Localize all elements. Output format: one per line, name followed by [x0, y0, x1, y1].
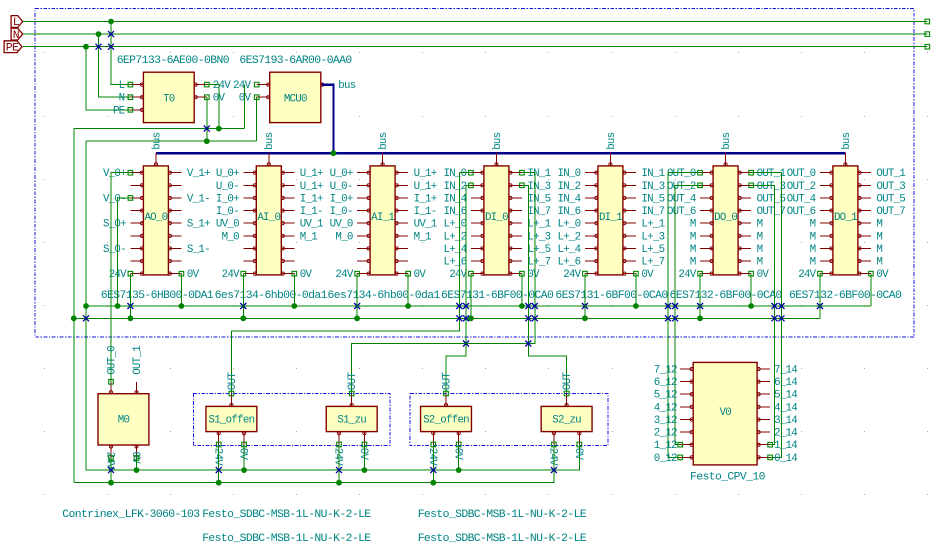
- T0 left pins L N PE: [113, 80, 144, 117]
- svg-text:UV_0: UV_0: [330, 219, 353, 231]
- S2_zu pin OUT: [562, 372, 574, 407]
- svg-text:M_0: M_0: [335, 231, 352, 243]
- wire AO_0 V_0+ to M0 OUT_0: [111, 173, 130, 382]
- svg-text:24V: 24V: [213, 80, 231, 92]
- svg-text:4_14: 4_14: [774, 402, 797, 414]
- svg-text:IN_3: IN_3: [641, 181, 664, 193]
- svg-text:1_12: 1_12: [654, 440, 677, 452]
- wire end S2_zu OUT: [564, 391, 569, 396]
- wire AI_1 0V drop: [407, 274, 409, 306]
- svg-text:OUT: OUT: [441, 372, 453, 390]
- no-connect X OUT_3 over 0V rail: [772, 303, 778, 309]
- wire end S2_offen 0V: [456, 442, 461, 447]
- wire 24V feeder left drop: [73, 129, 75, 483]
- svg-text:0_12: 0_12: [654, 453, 677, 465]
- wire end M0 0V: [134, 456, 139, 461]
- wire 24V rail (in frame): [74, 317, 820, 319]
- svg-text:AO_0: AO_0: [144, 212, 167, 224]
- svg-text:PE: PE: [113, 105, 125, 117]
- wire end V0 0_14: [768, 455, 773, 460]
- wire DO_1 24V drop: [819, 274, 821, 319]
- junction DO_0 0V on 0V rail: [748, 303, 754, 309]
- wire S2_offen 0V to rail: [458, 445, 460, 471]
- svg-text:IN_6: IN_6: [443, 206, 466, 218]
- component S1_offen (valve coil): [206, 406, 257, 431]
- module AI_1 top bus pin: [378, 132, 390, 166]
- svg-text:M: M: [876, 257, 882, 269]
- module DO_1 top bus pin: [841, 132, 853, 166]
- svg-text:bus: bus: [338, 80, 355, 92]
- wire end M0 OUT_0: [109, 380, 114, 385]
- svg-text:L+_6: L+_6: [557, 257, 580, 269]
- no-connect X S2_zu 24V over 0V rail: [551, 467, 557, 473]
- svg-text:L+_4: L+_4: [443, 244, 466, 256]
- power label PE: [4, 41, 22, 55]
- component S2_offen (valve coil): [421, 406, 472, 431]
- svg-text:bus: bus: [606, 132, 618, 149]
- junction T0-24V/feeder: [216, 126, 222, 132]
- svg-text:bus: bus: [721, 132, 733, 149]
- wire end S2_zu 0V: [577, 442, 582, 447]
- svg-text:IN_3: IN_3: [527, 181, 550, 193]
- svg-text:bus: bus: [151, 132, 163, 149]
- svg-text:Contrinex_LFK-3060-103: Contrinex_LFK-3060-103: [62, 509, 200, 521]
- svg-text:3_12: 3_12: [654, 415, 677, 427]
- junction DI_0 24V on 24V rail: [468, 315, 474, 321]
- module DO_0 right pins: [738, 168, 786, 281]
- wire S2_offen 24V to rail: [432, 445, 434, 483]
- svg-text:24V: 24V: [563, 269, 581, 281]
- component M0 (Contrinex sensor): [98, 394, 149, 445]
- svg-text:0V: 0V: [300, 269, 313, 281]
- svg-text:L: L: [119, 80, 125, 92]
- svg-text:S1_offen: S1_offen: [208, 415, 254, 427]
- wire DI_1 0V drop: [635, 274, 637, 306]
- module AI_0 left pins: [216, 168, 257, 281]
- svg-text:OUT_1: OUT_1: [876, 168, 905, 180]
- svg-text:DO_1: DO_1: [834, 212, 857, 224]
- svg-text:L+_3: L+_3: [527, 231, 550, 243]
- no-connect X L-drop over N: [108, 31, 114, 37]
- svg-text:Festo_CPV_10: Festo_CPV_10: [690, 472, 766, 484]
- svg-text:0V: 0V: [451, 448, 463, 461]
- module DO_1 left pins: [787, 168, 833, 281]
- svg-text:I_0-: I_0-: [330, 206, 353, 218]
- wire end S1_zu OUT: [349, 391, 354, 396]
- svg-text:0V: 0V: [187, 269, 200, 281]
- wire M0 24V to rail: [110, 458, 112, 483]
- wire end DI_1 24V: [583, 271, 588, 276]
- wire end DI_0 IN_1: [520, 170, 525, 175]
- svg-text:24V: 24V: [332, 448, 344, 466]
- svg-text:M_1: M_1: [414, 231, 431, 243]
- S2_offen pin 0V: [451, 432, 463, 461]
- svg-text:S_1-: S_1-: [187, 244, 210, 256]
- wire AO_0 0V drop: [180, 274, 182, 306]
- svg-text:L+_5: L+_5: [527, 244, 550, 256]
- junction V_0- on 0V rail: [115, 303, 121, 309]
- wire DO_0 0V drop: [750, 274, 752, 306]
- module DI_0 top bus pin: [492, 132, 504, 166]
- svg-text:bus: bus: [492, 132, 504, 149]
- svg-text:4_12: 4_12: [654, 402, 677, 414]
- svg-text:S_0-: S_0-: [103, 244, 126, 256]
- S1_offen pin 0V: [237, 432, 249, 461]
- svg-text:I_1+: I_1+: [300, 193, 323, 205]
- bus horizontal: [156, 152, 846, 154]
- junction S2_offen 0V on 0V rail: [456, 467, 462, 473]
- svg-text:Festo_SDBC-MSB-1L-NU-K-2-LE: Festo_SDBC-MSB-1L-NU-K-2-LE: [418, 533, 587, 545]
- wire S1_zu 24V to rail: [338, 445, 340, 483]
- svg-text:M: M: [876, 231, 882, 243]
- wire end S2_offen 24V: [431, 442, 436, 447]
- module DI_1 top bus pin: [606, 132, 618, 166]
- module DO_0 top bus pin: [721, 132, 733, 166]
- no-connect X OUT_3 over 24V rail: [772, 315, 778, 321]
- svg-text:OUT_3: OUT_3: [876, 181, 905, 193]
- svg-text:IN_1: IN_1: [527, 168, 550, 180]
- svg-text:24V: 24V: [449, 269, 467, 281]
- svg-text:M_0: M_0: [222, 231, 239, 243]
- svg-text:PE: PE: [6, 42, 19, 54]
- junction M0 24V on 24V rail: [108, 480, 114, 486]
- svg-text:6es7134-6hb00-0da1: 6es7134-6hb00-0da1: [215, 290, 328, 302]
- svg-text:M: M: [690, 244, 696, 256]
- wire MCU0 0V drop: [256, 97, 258, 141]
- svg-text:M_1: M_1: [300, 231, 317, 243]
- wire 24V bottom rail: [74, 445, 554, 483]
- svg-text:S1_zu: S1_zu: [337, 415, 366, 427]
- wire DO_0 OUT_1 to V0 0_14: [751, 173, 781, 458]
- svg-text:L+_5: L+_5: [641, 244, 664, 256]
- no-connect X AO_0 24V over 0V rail: [127, 303, 133, 309]
- svg-text:L+_0: L+_0: [443, 219, 466, 231]
- module DI_1 (6ES7131-6BF00-0CA0): [598, 166, 623, 275]
- junction bus corner: [331, 150, 337, 156]
- grid dots (decorative): [44, 52, 928, 495]
- wire end S1_offen 0V: [242, 442, 247, 447]
- svg-text:bus: bus: [378, 132, 390, 149]
- svg-text:24V: 24V: [798, 269, 816, 281]
- wire end DO_0 OUT_2: [698, 183, 703, 188]
- svg-text:T0: T0: [163, 94, 175, 106]
- no-connect X L-drop over PE: [108, 44, 114, 50]
- wire M0 0V to rail: [136, 458, 138, 470]
- svg-text:S2_zu: S2_zu: [552, 415, 581, 427]
- S1_zu pin 24V: [332, 432, 344, 467]
- junction AI_0 24V on 24V rail: [240, 315, 246, 321]
- svg-text:OUT_2: OUT_2: [667, 181, 696, 193]
- wire S2_zu 24V to rail: [553, 445, 555, 483]
- svg-text:24V: 24V: [335, 269, 353, 281]
- svg-text:M: M: [876, 244, 882, 256]
- svg-text:OUT_6: OUT_6: [667, 206, 696, 218]
- svg-text:OUT_0: OUT_0: [667, 168, 696, 180]
- svg-text:IN_0: IN_0: [443, 168, 466, 180]
- wire DI_0 0V drop: [521, 274, 523, 306]
- junction L/L-drop: [108, 19, 114, 25]
- module DI_0 left pins: [443, 168, 484, 281]
- wire end DO_0 OUT_1: [749, 170, 754, 175]
- svg-text:M: M: [810, 219, 816, 231]
- junction DI_1 24V on 24V rail: [582, 315, 588, 321]
- no-connect X IN_2 over 0V rail: [463, 303, 469, 309]
- svg-text:L+_1: L+_1: [641, 219, 664, 231]
- svg-text:M: M: [690, 219, 696, 231]
- svg-text:IN_7: IN_7: [527, 206, 550, 218]
- no-connect X IN_0 over 24V rail: [456, 315, 462, 321]
- component T0 (PSU 6EP7133): [143, 72, 194, 122]
- bus from MCU0: [322, 85, 333, 154]
- svg-text:2_14: 2_14: [774, 428, 797, 440]
- dangling end L rail: [925, 19, 930, 24]
- svg-text:24V: 24V: [426, 448, 438, 466]
- svg-text:S2_offen: S2_offen: [423, 415, 469, 427]
- svg-text:IN_4: IN_4: [557, 193, 580, 205]
- svg-text:UV_0: UV_0: [216, 219, 239, 231]
- svg-text:OUT_4: OUT_4: [667, 193, 696, 205]
- module AO_0 top bus pin: [151, 132, 163, 166]
- svg-text:M: M: [690, 257, 696, 269]
- junction S1_offen 0V on 0V rail: [241, 467, 247, 473]
- svg-text:OUT: OUT: [227, 372, 239, 390]
- wire end DO_1 0V: [869, 271, 874, 276]
- svg-text:6ES7132-6BF00-0CA0: 6ES7132-6BF00-0CA0: [789, 290, 902, 302]
- wire DI_0 IN_1 to S1_zu: [352, 173, 535, 394]
- wire S2_zu 0V to rail: [578, 445, 580, 471]
- junction AI_0 0V on 0V rail: [291, 303, 297, 309]
- wire end AI_1 24V: [355, 271, 360, 276]
- wire AO_0 V_0- to 0V rail: [118, 198, 131, 306]
- svg-text:bus: bus: [264, 132, 276, 149]
- wire end AI_0 0V: [292, 271, 297, 276]
- wire MCU0 24V drop: [244, 85, 246, 129]
- junction AI_1 0V on 0V rail: [405, 303, 411, 309]
- svg-text:6_12: 6_12: [654, 377, 677, 389]
- no-connect X IN_2 over S1_zu wire: [463, 341, 469, 347]
- svg-text:M: M: [810, 257, 816, 269]
- svg-text:UV_1: UV_1: [300, 219, 323, 231]
- svg-text:MCU0: MCU0: [284, 94, 307, 106]
- svg-text:U_0+: U_0+: [216, 168, 239, 180]
- no-connect X S1_zu 24V over 0V rail: [336, 467, 342, 473]
- svg-text:L+_2: L+_2: [443, 231, 466, 243]
- wire end DO_1 24V: [818, 271, 823, 276]
- module AI_0 right pins: [281, 168, 323, 281]
- svg-text:6es7134-6hb00-0da1: 6es7134-6hb00-0da1: [328, 290, 441, 302]
- wire N drop to T0: [99, 34, 131, 97]
- module DI_1 right pins: [623, 168, 665, 281]
- svg-text:I_1+: I_1+: [414, 193, 437, 205]
- junction AO_0 0V on 0V rail: [179, 303, 185, 309]
- svg-text:U_0-: U_0-: [216, 181, 239, 193]
- wire DO_0 24V drop: [699, 274, 701, 319]
- wire end DO_0 OUT_3: [749, 183, 754, 188]
- svg-text:V_0+: V_0+: [103, 168, 126, 180]
- V0 left pins 7_12..0_12: [654, 365, 694, 465]
- S2_zu pin 24V: [547, 432, 559, 467]
- wire end T0 pin N: [128, 95, 133, 100]
- junction S1_offen 24V on 24V rail: [216, 480, 222, 486]
- svg-text:AI_0: AI_0: [257, 212, 280, 224]
- svg-text:IN_2: IN_2: [557, 181, 580, 193]
- M0 pin 0V: [129, 445, 141, 464]
- no-connect X 0V-drop over 24V feeder: [204, 126, 210, 132]
- wire L rail: [23, 21, 928, 23]
- wire 0V bottom rail: [86, 445, 579, 471]
- wire end S2_zu 24V: [552, 442, 557, 447]
- svg-text:L+_7: L+_7: [527, 257, 550, 269]
- wire 0V feeder (horizontal): [86, 140, 257, 142]
- S1_offen pin 24V: [211, 432, 223, 467]
- svg-text:24V: 24V: [678, 269, 696, 281]
- M0 pin 24V: [104, 445, 116, 470]
- wire end T0 0V: [205, 95, 210, 100]
- wire end MCU0 0V: [254, 95, 259, 100]
- module DI_0 (6ES7131-6BF00-0CA0): [484, 166, 509, 275]
- module DO_0 left pins: [667, 168, 713, 281]
- svg-text:24V: 24V: [222, 269, 240, 281]
- module AO_0 (6ES7135-6HB00-0DA1): [143, 166, 168, 275]
- no-connect X M0 24V over 0V rail: [108, 467, 114, 473]
- svg-text:Festo_SDBC-MSB-1L-NU-K-2-LE: Festo_SDBC-MSB-1L-NU-K-2-LE: [418, 509, 587, 521]
- svg-text:6ES7131-6BF00-0CA0: 6ES7131-6BF00-0CA0: [555, 290, 668, 302]
- component S2_zu (valve coil): [541, 406, 592, 431]
- junction AO_0 24V on 24V rail: [127, 315, 133, 321]
- svg-text:0V: 0V: [239, 93, 252, 105]
- svg-text:6ES7131-6BF00-0CA0: 6ES7131-6BF00-0CA0: [441, 290, 554, 302]
- dangling end N rail: [925, 32, 930, 37]
- no-connect X OUT_0 over 0V rail: [665, 303, 671, 309]
- no-connect X N-drop over PE: [96, 44, 102, 50]
- wire end AI_1 0V: [406, 271, 411, 276]
- no-connect X OUT_2 over 0V rail: [672, 303, 678, 309]
- module DI_1 left pins: [557, 168, 598, 281]
- component S1_zu (valve coil): [326, 406, 377, 431]
- wire end AO_0 24V: [128, 271, 133, 276]
- svg-text:DI_1: DI_1: [599, 212, 622, 224]
- M0 pin OUT_1: [132, 346, 144, 394]
- svg-text:0V: 0V: [641, 269, 654, 281]
- svg-text:OUT: OUT: [347, 372, 359, 390]
- svg-text:0V: 0V: [572, 448, 584, 461]
- S2_zu pin 0V: [572, 432, 584, 461]
- svg-text:L: L: [13, 17, 20, 29]
- svg-text:7_14: 7_14: [774, 365, 797, 377]
- dashed box valve S2 group: [410, 393, 608, 445]
- wire DO_0 OUT_2 to V0 1_12: [675, 185, 700, 444]
- svg-text:L+_7: L+_7: [641, 257, 664, 269]
- wire DI_0 24V drop: [470, 274, 472, 319]
- svg-text:bus: bus: [841, 132, 853, 149]
- svg-text:AI_1: AI_1: [371, 212, 394, 224]
- svg-text:L+_1: L+_1: [527, 219, 550, 231]
- svg-text:OUT_0: OUT_0: [106, 346, 118, 375]
- svg-text:0_14: 0_14: [774, 453, 797, 465]
- wire end AO_0 0V: [179, 271, 184, 276]
- V0 right pins 7_14..0_14: [757, 365, 797, 465]
- svg-text:0V: 0V: [876, 269, 889, 281]
- svg-text:N: N: [13, 30, 19, 42]
- svg-text:M: M: [690, 231, 696, 243]
- svg-text:24V: 24V: [233, 80, 251, 92]
- no-connect X 0V left drop over 24V rail: [83, 315, 89, 321]
- module AO_0 left pins: [103, 168, 144, 281]
- svg-text:6_14: 6_14: [774, 377, 797, 389]
- dangling end PE rail: [925, 44, 930, 49]
- wire end S1_zu 0V: [362, 442, 367, 447]
- svg-text:I_0+: I_0+: [216, 193, 239, 205]
- svg-text:M: M: [757, 257, 763, 269]
- svg-text:7_12: 7_12: [654, 365, 677, 377]
- junction left drop 0V rail: [83, 303, 89, 309]
- wire AO_0 24V drop: [129, 274, 131, 319]
- wire end DO_0 0V: [749, 271, 754, 276]
- wire T0 24V to 24V feeder: [207, 85, 219, 129]
- svg-text:IN_5: IN_5: [527, 193, 550, 205]
- svg-text:6EP7133-6AE00-0BN0: 6EP7133-6AE00-0BN0: [117, 55, 230, 67]
- svg-text:0V: 0V: [237, 448, 249, 461]
- svg-text:IN_7: IN_7: [641, 206, 664, 218]
- svg-text:UV_1: UV_1: [414, 219, 437, 231]
- wire end S2_offen OUT: [444, 391, 449, 396]
- component V0 (Festo CPV10 valve terminal): [693, 362, 757, 465]
- no-connect X OUT_0 over 24V rail: [665, 315, 671, 321]
- module DO_1 (6ES7132-6BF00-0CA0): [833, 166, 858, 275]
- wire end V0 1_12: [678, 442, 683, 447]
- svg-text:5_12: 5_12: [654, 390, 677, 402]
- no-connect X S1_offen 24V over 0V rail: [216, 467, 222, 473]
- wire 24V feeder (horizontal): [74, 128, 245, 130]
- junction S1_zu 0V on 0V rail: [362, 467, 368, 473]
- no-connect X AI_1 24V over 0V rail: [354, 303, 360, 309]
- junction N/N-drop: [96, 31, 102, 37]
- svg-text:OUT_6: OUT_6: [787, 206, 816, 218]
- svg-text:OUT_7: OUT_7: [876, 206, 905, 218]
- wire end DO_0 OUT_0: [698, 170, 703, 175]
- wire S1_offen 24V to rail: [218, 445, 220, 483]
- svg-text:M: M: [757, 219, 763, 231]
- svg-text:U_1+: U_1+: [300, 181, 323, 193]
- svg-text:IN_6: IN_6: [557, 206, 580, 218]
- svg-text:U_0+: U_0+: [330, 168, 353, 180]
- svg-text:L+_3: L+_3: [641, 231, 664, 243]
- no-connect X OUT_1 over 0V rail: [779, 303, 785, 309]
- S1_zu pin 0V: [357, 432, 369, 461]
- svg-text:V_1-: V_1-: [187, 193, 210, 205]
- svg-text:M: M: [810, 231, 816, 243]
- junction AI_1 24V on 24V rail: [354, 315, 360, 321]
- dashed box valve S1 group: [193, 393, 389, 445]
- svg-text:1_14: 1_14: [774, 440, 797, 452]
- svg-text:I_1-: I_1-: [414, 206, 437, 218]
- wire end DO_0 24V: [698, 271, 703, 276]
- wire S1_offen 0V to rail: [243, 445, 245, 471]
- module AI_1 (6es7134-6hb00-0da1): [370, 166, 395, 275]
- no-connect X IN_1 over 0V rail: [532, 303, 538, 309]
- svg-text:U_0-: U_0-: [330, 181, 353, 193]
- wire end S1_offen OUT: [229, 391, 234, 396]
- wire PE drop to T0: [86, 47, 130, 110]
- S1_zu pin OUT: [347, 372, 359, 407]
- svg-text:DI_0: DI_0: [485, 212, 508, 224]
- svg-text:V_1+: V_1+: [187, 168, 210, 180]
- svg-text:L+_6: L+_6: [443, 257, 466, 269]
- svg-text:OUT_4: OUT_4: [787, 193, 816, 205]
- no-connect X IN_3 over 24V rail: [525, 315, 531, 321]
- svg-text:M0: M0: [118, 415, 130, 427]
- wire 0V rail (in frame): [86, 305, 871, 307]
